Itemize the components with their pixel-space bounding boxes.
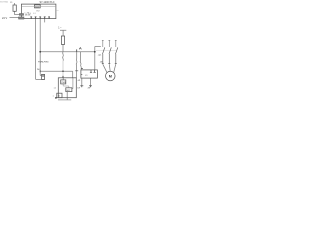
- svg-text:0.1: 0.1: [33, 13, 35, 15]
- svg-text:Logic: Logic: [35, 6, 40, 8]
- svg-text:W0: W0: [37, 69, 40, 71]
- svg-text:PWM-PWD: PWM-PWD: [38, 61, 49, 63]
- svg-text:B1 TB01: B1 TB01: [0, 1, 9, 3]
- svg-text:x1: x1: [54, 88, 56, 90]
- svg-text:1W: 1W: [77, 87, 80, 89]
- svg-text:0.0: 0.0: [29, 13, 31, 15]
- svg-text:X2: X2: [58, 95, 60, 97]
- svg-text:x: x: [53, 96, 54, 98]
- svg-text:K1: K1: [85, 75, 87, 77]
- svg-text:M: M: [109, 74, 112, 78]
- svg-text:S7-1200 PLC: S7-1200 PLC: [40, 1, 55, 4]
- svg-text:24 V: 24 V: [2, 17, 7, 20]
- svg-text:PWM: PWM: [62, 82, 67, 84]
- svg-text:MOT: MOT: [67, 90, 71, 92]
- svg-text:I/O: I/O: [37, 10, 40, 12]
- svg-text:2W: 2W: [88, 87, 91, 89]
